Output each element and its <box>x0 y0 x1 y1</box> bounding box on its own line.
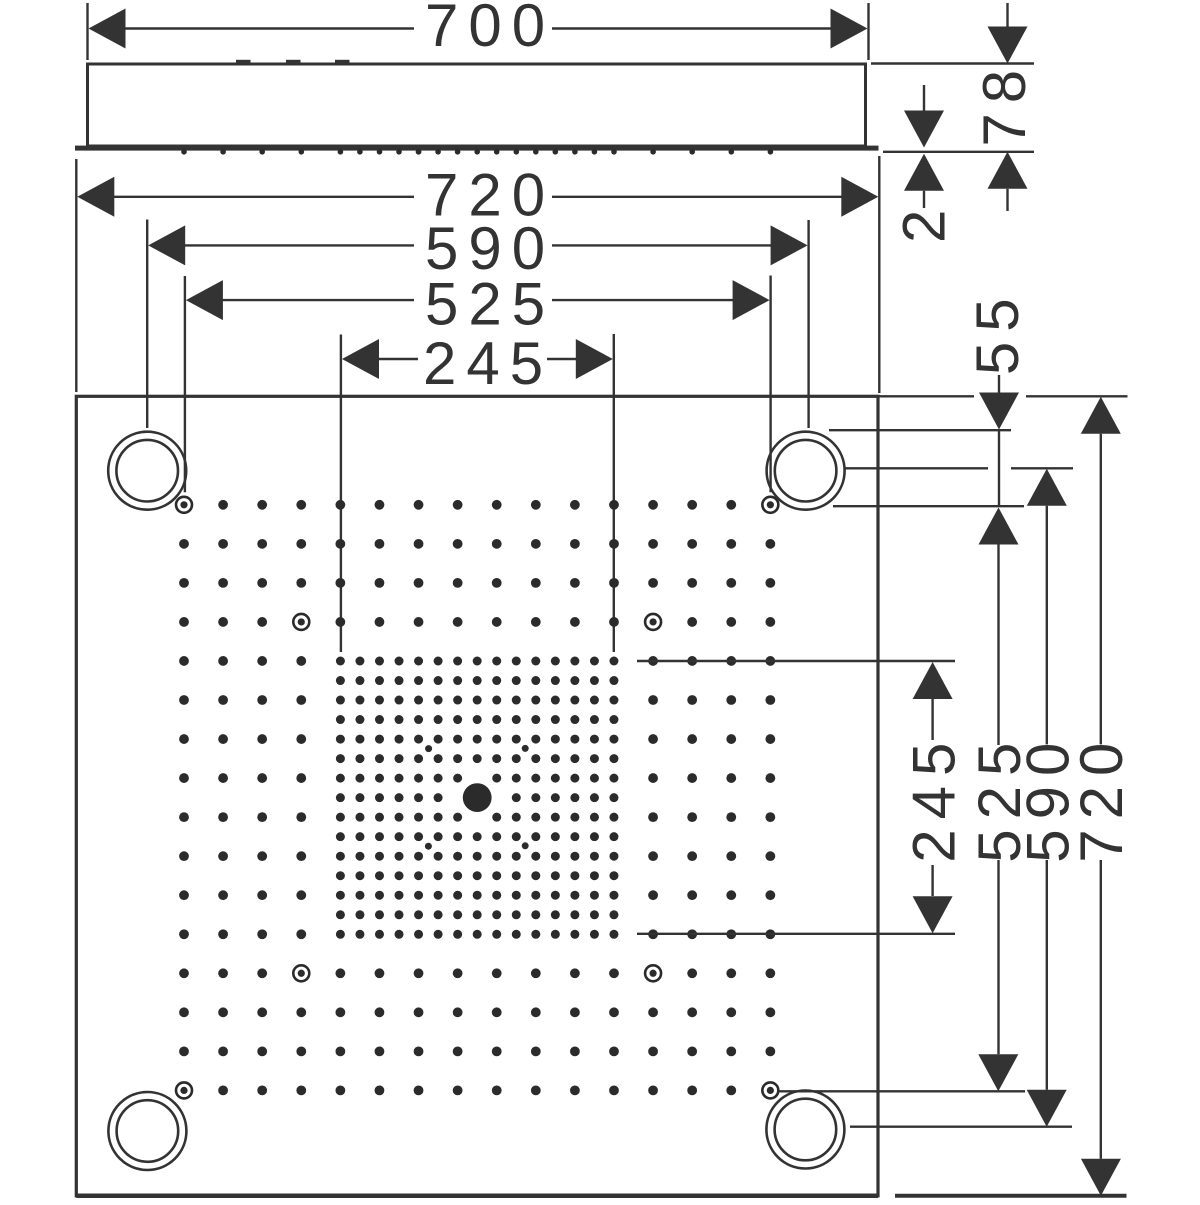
plan bottom edge extension line to the right <box>895 1194 1127 1198</box>
mounting lug right on housing top <box>335 60 350 65</box>
dimension 245 vertical bottom arrow pointing down <box>931 865 933 896</box>
extension line left for 245 at inner spray field <box>340 335 342 653</box>
ringed nozzle at grid column 0 row 0 <box>176 497 192 513</box>
dimension 245 left arrow pointing outward <box>342 339 379 379</box>
dimension 525 bottom arrow pointing down <box>997 860 999 1054</box>
dimension 78 lower arrow pointing up <box>988 152 1028 189</box>
svg-text:720: 720 <box>1068 733 1135 863</box>
svg-text:245: 245 <box>901 733 968 863</box>
ringed nozzle at grid column 3 row 3 <box>293 614 309 630</box>
nozzle dots on face panel edge <box>181 149 773 155</box>
dimension line 700 right segment with arrow <box>552 27 833 29</box>
dimension 2 lower arrow pointing up <box>904 154 944 191</box>
ringed nozzle at grid column 3 row 12 <box>293 965 309 981</box>
mounting lug middle on housing top <box>286 60 301 65</box>
dimension line 525 with arrows <box>186 280 223 320</box>
svg-text:78: 78 <box>971 60 1038 147</box>
inner dense nozzle dot grid 15x15 <box>336 657 619 939</box>
plan bottom edge thick line <box>76 1194 878 1199</box>
spotlight top-left outer ring <box>108 432 186 510</box>
dimension 78 upper arrow pointing down <box>1006 3 1008 28</box>
dimension 590 top arrow pointing up <box>1027 469 1067 506</box>
dimension 720 bottom arrow pointing down <box>1100 860 1102 1159</box>
svg-text:55: 55 <box>964 288 1031 375</box>
svg-text:2: 2 <box>891 200 958 243</box>
extension line left for 720 at plan left edge <box>75 159 77 392</box>
dimension 525 top arrow pointing up <box>979 508 1019 545</box>
small mist nozzle upper-left of center <box>425 745 432 752</box>
spotlight bottom-left inner ring <box>117 1100 179 1162</box>
dimension 55 leader and arrow pointing down <box>998 375 1000 393</box>
reference line small nozzle for 525 top <box>833 505 1024 507</box>
plan top edge extension line to the right <box>878 395 974 397</box>
spotlight bottom-right outer ring <box>766 1091 844 1169</box>
spotlight bottom-left outer ring <box>108 1092 186 1170</box>
reference line bottom for 78 at panel underside level <box>883 151 1034 153</box>
extension line right for 245 at inner spray field <box>613 334 615 652</box>
face panel edge band 720 wide <box>75 146 879 151</box>
spotlight top-right inner ring <box>775 440 837 502</box>
extension line right for 700 at housing right edge <box>867 3 869 60</box>
ringed nozzle at grid column 12 row 12 <box>645 965 661 981</box>
ringed nozzle at grid column 12 row 3 <box>645 614 661 630</box>
dimension 245 vertical top arrow pointing up <box>913 662 953 699</box>
extension line right for 525 to small corner nozzle <box>769 276 771 493</box>
outer nozzle dot grid 16x16 <box>179 500 775 1095</box>
small mist nozzle upper-right of center <box>522 745 529 752</box>
dimension line 700 left segment with arrow <box>89 9 126 49</box>
small mist nozzle lower-right of center <box>522 842 529 849</box>
dimension 590 bottom arrow pointing down <box>1046 860 1048 1090</box>
reference line top of inner spray field for 245 <box>637 660 955 662</box>
reference line bottom small nozzle for 525 <box>779 1090 1025 1092</box>
spotlight top-left inner ring <box>116 440 178 502</box>
mounting lug left on housing top <box>236 60 251 65</box>
spotlight bottom-right inner ring <box>775 1099 837 1161</box>
spotlight top-right outer ring <box>767 432 845 510</box>
svg-text:245: 245 <box>423 330 553 397</box>
reference line bottom of inner spray field for 245 <box>637 933 955 935</box>
dimension 2 upper arrow pointing down <box>923 85 925 111</box>
small mist nozzle lower-left of center <box>425 843 432 850</box>
ringed nozzle at grid column 15 row 15 <box>762 1082 778 1098</box>
side view housing box 700 wide <box>88 64 866 146</box>
reference line bottom spotlight for 590 <box>850 1125 1072 1127</box>
ringed nozzle at grid column 0 row 15 <box>176 1082 192 1098</box>
ringed nozzle at grid column 15 row 0 <box>762 497 778 513</box>
reference line spotlight centerline for 590 top <box>845 467 988 469</box>
svg-text:525: 525 <box>425 271 555 338</box>
reference line top of spotlight for 55 <box>829 429 1011 431</box>
extension line left for 525 to small corner nozzle <box>184 276 186 492</box>
extension line right for 590 to top-right spotlight <box>807 220 809 428</box>
dimension 245 right arrow pointing outward <box>547 358 577 360</box>
extension line left for 590 to top-left spotlight <box>146 220 148 429</box>
extension line left for 700 at housing left edge <box>86 3 88 60</box>
dimension line 720 with arrows <box>77 177 114 217</box>
dimension line 590 with arrows <box>148 225 185 265</box>
plan view square panel outline 720 x 720 <box>76 396 878 1196</box>
extension line right for 720 at plan right edge <box>878 156 880 393</box>
central large nozzle dot <box>463 783 492 812</box>
reference line top for 78 at housing top level <box>871 62 1034 64</box>
svg-text:700: 700 <box>425 0 555 59</box>
dimension 720 top arrow pointing up <box>1081 397 1121 434</box>
